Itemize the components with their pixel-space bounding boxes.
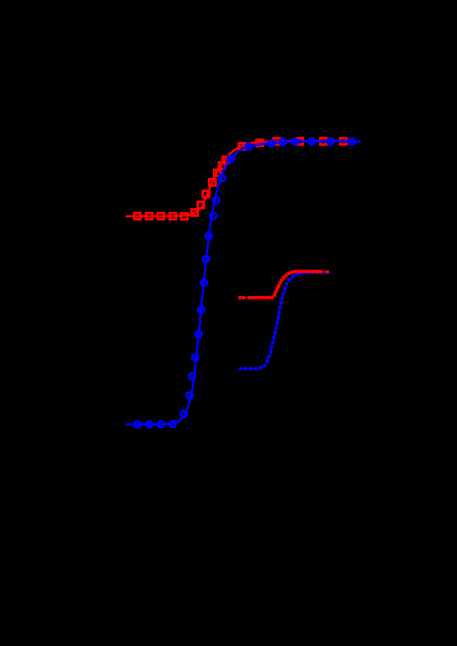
inset blue curve filled-dot markers [239, 270, 330, 370]
inset red curve filled-square markers [238, 270, 329, 300]
inset blue curve line [241, 272, 331, 369]
main red curve line [126, 141, 348, 216]
main blue curve line [126, 141, 362, 424]
main blue curve open-circle markers [134, 138, 354, 427]
main red curve open-square markers [134, 138, 346, 219]
inset red curve line [240, 271, 328, 298]
